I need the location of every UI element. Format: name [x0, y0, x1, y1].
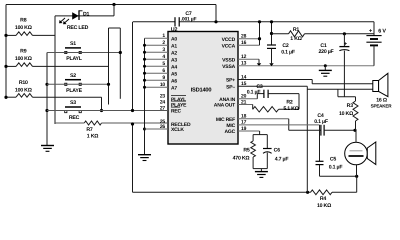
svg-text:5: 5: [162, 61, 165, 67]
svg-text:.001 µF: .001 µF: [181, 17, 197, 23]
svg-text:5.1 KΩ: 5.1 KΩ: [283, 106, 298, 112]
svg-text:SP–: SP–: [226, 85, 235, 91]
svg-text:2: 2: [162, 40, 165, 46]
svg-text:100 KΩ: 100 KΩ: [15, 25, 32, 31]
svg-text:6: 6: [162, 68, 165, 74]
svg-text:VSSA: VSSA: [222, 64, 235, 70]
svg-text:C5: C5: [330, 156, 337, 162]
svg-text:A3: A3: [171, 57, 177, 63]
svg-text:R4: R4: [320, 196, 327, 202]
svg-text:10 KΩ: 10 KΩ: [317, 203, 331, 209]
svg-text:S3: S3: [70, 100, 76, 106]
svg-text:A4: A4: [171, 64, 177, 70]
svg-text:MIC: MIC: [226, 123, 235, 129]
svg-text:REC: REC: [171, 109, 182, 115]
svg-text:REC LED: REC LED: [67, 25, 89, 31]
svg-text:10: 10: [160, 82, 166, 88]
svg-text:D1: D1: [83, 11, 90, 17]
svg-text:6 V: 6 V: [378, 29, 386, 35]
svg-text:PLAYL: PLAYL: [66, 56, 83, 62]
svg-text:SP+: SP+: [226, 78, 235, 84]
svg-text:PLAYE: PLAYE: [66, 88, 83, 94]
svg-text:100 KΩ: 100 KΩ: [15, 87, 32, 93]
svg-text:ISD1400: ISD1400: [191, 88, 212, 94]
svg-text:0.1 µF: 0.1 µF: [314, 119, 328, 125]
svg-text:R10: R10: [19, 80, 28, 86]
svg-text:1 KΩ: 1 KΩ: [290, 36, 301, 42]
svg-text:S1: S1: [70, 41, 76, 47]
svg-text:A1: A1: [171, 43, 177, 49]
svg-text:ANA OUT: ANA OUT: [214, 103, 235, 109]
svg-text:220 µF: 220 µF: [318, 49, 333, 55]
svg-text:3: 3: [162, 47, 165, 53]
svg-text:C2: C2: [282, 43, 289, 49]
svg-text:10 KΩ: 10 KΩ: [339, 111, 353, 117]
svg-text:0.1 µF: 0.1 µF: [329, 164, 343, 170]
svg-text:A5: A5: [171, 71, 177, 77]
svg-text:VCCA: VCCA: [222, 44, 236, 50]
svg-text:VCCD: VCCD: [222, 37, 236, 43]
svg-text:VSSD: VSSD: [222, 57, 235, 63]
svg-text:R8: R8: [20, 17, 27, 23]
svg-text:1: 1: [162, 33, 165, 39]
svg-text:470 KΩ: 470 KΩ: [233, 155, 250, 161]
svg-text:R1: R1: [293, 27, 300, 33]
svg-text:U2: U2: [171, 27, 178, 33]
svg-text:REC: REC: [69, 115, 80, 121]
svg-text:0.1 µF: 0.1 µF: [281, 49, 295, 55]
svg-text:A0: A0: [171, 36, 177, 42]
svg-text:A2: A2: [171, 50, 177, 56]
svg-text:9: 9: [162, 75, 165, 81]
svg-text:C1: C1: [320, 43, 327, 49]
svg-text:R3: R3: [347, 103, 354, 109]
svg-text:1 KΩ: 1 KΩ: [87, 133, 98, 139]
svg-text:4.7 µF: 4.7 µF: [275, 156, 289, 162]
svg-text:S2: S2: [70, 73, 76, 79]
svg-text:C4: C4: [317, 113, 324, 119]
svg-text:MIC REF: MIC REF: [216, 117, 235, 123]
svg-text:R7: R7: [86, 127, 93, 133]
svg-text:A7: A7: [171, 85, 177, 91]
svg-text:AGC: AGC: [224, 129, 235, 135]
svg-text:C6: C6: [274, 148, 281, 154]
svg-text:4: 4: [162, 54, 165, 60]
svg-text:A6: A6: [171, 78, 177, 84]
svg-text:SPEAKER: SPEAKER: [371, 103, 393, 108]
svg-text:27: 27: [160, 105, 166, 111]
svg-text:R2: R2: [286, 99, 293, 105]
svg-text:R5: R5: [243, 148, 250, 154]
svg-text:R9: R9: [20, 49, 27, 55]
svg-text:XCLK: XCLK: [171, 127, 184, 133]
svg-text:100 KΩ: 100 KΩ: [15, 56, 32, 62]
svg-text:0.1 µF: 0.1 µF: [247, 89, 261, 95]
